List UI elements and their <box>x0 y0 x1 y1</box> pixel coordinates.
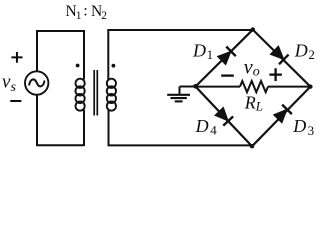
svg-text:1: 1 <box>76 10 82 22</box>
wire: secondary top to bridge <box>107 29 253 31</box>
svg-text::: : <box>83 3 87 20</box>
resistor RL zigzag <box>240 81 268 92</box>
wire: primary loop bottom <box>36 144 84 146</box>
wire: primary loop top <box>37 30 84 32</box>
transformer phasing dot primary <box>76 64 80 68</box>
svg-text:2: 2 <box>308 47 315 62</box>
svg-text:2: 2 <box>101 10 107 22</box>
label - (source polarity) <box>10 100 21 102</box>
label - (vo polarity) <box>221 74 234 76</box>
svg-text:vs: vs <box>2 72 16 95</box>
wire: left branch above source <box>36 30 38 71</box>
wire: resistor to right vertex <box>268 86 310 88</box>
ac source sine wave <box>29 79 44 86</box>
transformer primary lead bottom <box>83 110 85 146</box>
ground <box>167 95 190 102</box>
svg-text:D: D <box>195 116 209 136</box>
node L junction dot <box>193 84 198 89</box>
svg-text:RL: RL <box>244 92 263 113</box>
node T junction dot <box>251 27 255 31</box>
label + (source polarity) <box>11 52 22 63</box>
transformer secondary winding <box>107 79 116 111</box>
svg-text:D: D <box>292 116 306 136</box>
transformer primary lead top <box>83 30 85 80</box>
bridge edge B-R with diode D3 <box>252 87 310 147</box>
bridge edge T-R with diode D2 <box>253 30 311 87</box>
node R junction dot <box>308 85 312 89</box>
node B junction dot <box>250 144 254 148</box>
transformer secondary lead top <box>107 30 109 80</box>
wire: left branch below source <box>36 95 38 146</box>
transformer secondary lead bottom <box>108 110 110 146</box>
svg-text:1: 1 <box>207 47 214 62</box>
wire: secondary bottom to bridge <box>108 144 253 146</box>
svg-text:3: 3 <box>308 123 315 138</box>
wire: left vertex to ground drop <box>180 87 197 95</box>
label + (vo polarity) <box>269 68 282 81</box>
bridge edge L-T with diode D1 <box>196 30 253 87</box>
bridge edge L-B with diode D4 <box>196 87 253 147</box>
transformer phasing dot secondary <box>112 64 116 68</box>
wire: rail left vertex to resistor <box>196 86 241 88</box>
ac source VS circle <box>25 71 48 94</box>
transformer core <box>94 70 97 116</box>
svg-text:vo: vo <box>244 57 260 80</box>
svg-text:4: 4 <box>210 123 217 138</box>
svg-text:D: D <box>294 40 308 60</box>
transformer primary winding <box>76 79 85 111</box>
svg-text:D: D <box>192 40 206 60</box>
